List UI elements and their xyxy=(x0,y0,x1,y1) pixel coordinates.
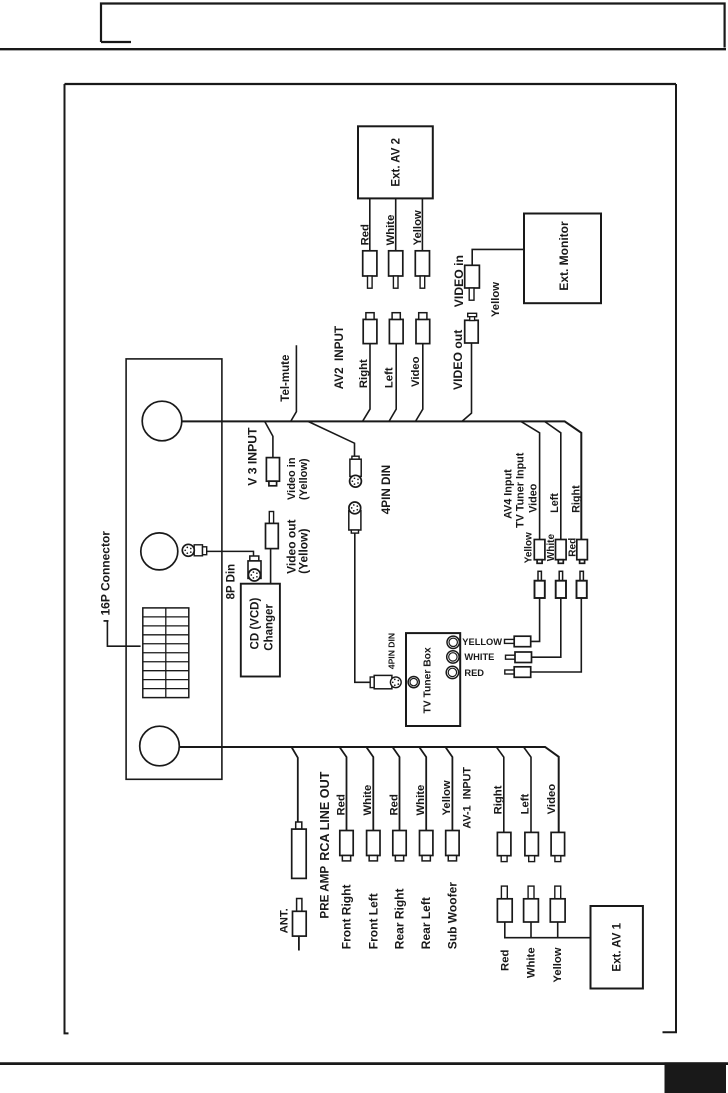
top rule xyxy=(0,48,726,50)
svg-text:Front Left: Front Left xyxy=(366,893,380,949)
label Front Right xyxy=(340,885,354,950)
svg-text:(Yellow): (Yellow) xyxy=(297,529,311,574)
svg-text:Right: Right xyxy=(358,359,370,388)
plug rca out 3 (red) xyxy=(393,831,406,861)
wire V3 input xyxy=(265,421,273,457)
label Left xyxy=(384,367,396,388)
tuner socket white xyxy=(447,651,459,663)
footer black box xyxy=(665,1062,727,1093)
svg-text:TV Tuner Input: TV Tuner Input xyxy=(515,452,527,528)
label ANT. xyxy=(278,908,290,933)
svg-text:Red: Red xyxy=(499,950,511,971)
label Red av4 xyxy=(567,538,578,557)
label Ext. AV 2 xyxy=(391,138,403,187)
wire rca out 1 xyxy=(340,747,347,831)
wire ext av2 red xyxy=(369,198,371,250)
svg-text:AV4 Input: AV4 Input xyxy=(503,469,515,519)
svg-text:Tel-mute: Tel-mute xyxy=(280,355,292,402)
label 4PIN DIN small xyxy=(387,633,397,669)
4pin din plug lower xyxy=(349,502,361,533)
svg-text:Video: Video xyxy=(410,356,422,387)
diagram border right xyxy=(663,84,677,1032)
label Tel-mute xyxy=(280,355,292,402)
plug rca out 1 (red) xyxy=(340,831,353,861)
label Right xyxy=(358,359,370,388)
16P connector grid xyxy=(143,608,189,698)
svg-text:Ext. Monitor: Ext. Monitor xyxy=(557,221,571,291)
label White xyxy=(385,215,397,246)
label YELLOW xyxy=(462,637,502,647)
plug 4pin din tuner (horizontal) xyxy=(370,675,401,688)
wire ext av2 white xyxy=(395,198,397,250)
plug tuner right (male) xyxy=(577,571,587,598)
tuner socket din xyxy=(408,677,419,688)
svg-text:VIDEO in: VIDEO in xyxy=(452,255,466,307)
wire video out xyxy=(462,343,472,421)
label V 3 INPUT xyxy=(246,427,260,486)
svg-text:8P Din: 8P Din xyxy=(225,564,237,600)
plug VIDEO out xyxy=(465,313,479,343)
wire rca out 4 xyxy=(419,747,426,831)
plug AV2 left (female) xyxy=(389,313,403,344)
plug AV4 left (female) xyxy=(556,540,567,564)
plug ext av2 white (male) xyxy=(389,251,403,288)
wires ext av1 to box xyxy=(505,922,591,938)
svg-text:AV-1 INPUT: AV-1 INPUT xyxy=(461,767,473,829)
svg-text:Red: Red xyxy=(388,794,400,815)
label Yellow videopair xyxy=(490,282,502,317)
label Red extav1 xyxy=(499,950,511,971)
label Sub Woofer xyxy=(445,882,459,949)
wire av1 left xyxy=(524,747,531,832)
svg-text:Left: Left xyxy=(384,367,396,388)
label Rear Right xyxy=(393,889,407,950)
unit connector circle middle xyxy=(141,533,178,570)
plug ext av1 white (male) xyxy=(524,886,539,922)
label White extav1 xyxy=(526,947,538,978)
label 16P Connector xyxy=(99,531,113,616)
svg-text:Video: Video xyxy=(528,483,540,513)
8p din plug at unit xyxy=(182,544,206,556)
label Left av4 xyxy=(549,493,561,513)
svg-text:ANT.: ANT. xyxy=(278,908,290,933)
plug AV-1 right (female) xyxy=(497,832,511,861)
svg-text:White: White xyxy=(362,785,374,816)
label Ext. AV 1 xyxy=(612,922,624,971)
plug tuner white (horizontal) xyxy=(506,652,532,663)
wire 8p din xyxy=(207,551,254,556)
wire AV2 video xyxy=(416,342,423,421)
svg-text:Right: Right xyxy=(570,485,582,513)
box CD (VCD) Changer xyxy=(241,584,280,677)
label Yellow extav1 xyxy=(552,947,564,982)
box Ext. Monitor xyxy=(524,214,601,304)
label TV Tuner Box xyxy=(422,647,433,713)
wire tuner yellow xyxy=(532,598,540,641)
svg-text:PRE AMP: PRE AMP xyxy=(319,866,332,919)
svg-text:RED: RED xyxy=(464,668,484,678)
svg-text:Sub Woofer: Sub Woofer xyxy=(445,882,459,949)
bottom rule xyxy=(0,1062,728,1065)
label AV4 Input xyxy=(503,469,515,519)
svg-text:YELLOW: YELLOW xyxy=(462,637,502,647)
label White rca4 xyxy=(415,785,427,816)
svg-text:TV Tuner Box: TV Tuner Box xyxy=(422,647,433,713)
wire pre amp xyxy=(292,747,298,822)
svg-text:CD (VCD): CD (VCD) xyxy=(249,598,261,650)
svg-text:Yellow: Yellow xyxy=(490,282,502,317)
svg-text:VIDEO out: VIDEO out xyxy=(451,330,465,390)
top trunk cable xyxy=(182,421,582,539)
wire AV4 video xyxy=(521,421,540,539)
plug AV2 right (female) xyxy=(363,313,377,344)
diagram border left xyxy=(65,84,69,1033)
plug VIDEO in xyxy=(465,265,480,300)
wire av1 right xyxy=(496,747,503,832)
label Red rca3 xyxy=(388,794,400,815)
plug ext av2 red (male) xyxy=(363,251,377,288)
wire video in to monitor xyxy=(472,249,524,265)
wire tuner red xyxy=(532,598,582,672)
label Video av1 xyxy=(546,784,558,815)
label 8P Din xyxy=(225,564,237,600)
label White av4 xyxy=(546,534,557,562)
svg-text:Ext. AV 1: Ext. AV 1 xyxy=(612,922,624,971)
label Right av4 xyxy=(570,485,582,513)
label Video xyxy=(410,356,422,387)
svg-text:White: White xyxy=(385,215,397,246)
label Yellow av4 xyxy=(524,532,535,563)
svg-text:WHITE: WHITE xyxy=(464,652,494,662)
plug PRE AMP xyxy=(292,822,307,878)
svg-text:White: White xyxy=(546,534,557,562)
plug tuner yellow (horizontal) xyxy=(505,636,531,647)
svg-text:(Yellow): (Yellow) xyxy=(298,458,310,500)
tuner socket red xyxy=(446,666,458,678)
plug ext av1 red (male) xyxy=(497,886,512,922)
wire 4pin din branch xyxy=(308,421,355,456)
svg-text:Front Right: Front Right xyxy=(340,885,354,950)
svg-text:Red: Red xyxy=(359,224,371,245)
plug tuner left (male) xyxy=(556,571,566,598)
svg-text:Ext. AV 2: Ext. AV 2 xyxy=(391,138,403,187)
svg-text:Yellow: Yellow xyxy=(412,210,424,245)
header box xyxy=(101,4,725,48)
label Video out (Yellow) xyxy=(284,519,310,573)
plug video out cd xyxy=(266,512,279,549)
plug AV4 right (female) xyxy=(577,540,588,564)
plug AV2 video (female) xyxy=(416,313,430,344)
plug rca out 4 (white) xyxy=(420,831,433,861)
label Ext. Monitor xyxy=(557,221,571,291)
label AV-1 INPUT xyxy=(461,767,473,829)
label VIDEO out xyxy=(451,330,465,390)
tel-mute leader xyxy=(291,345,297,421)
label White rca2 xyxy=(362,785,374,816)
plug tuner red (horizontal) xyxy=(505,667,531,678)
label Rear Left xyxy=(419,897,433,949)
wire AV4 left xyxy=(545,421,561,539)
box TV Tuner Box xyxy=(406,633,460,726)
wire video out cd xyxy=(270,549,272,584)
svg-text:Rear Right: Rear Right xyxy=(393,889,407,950)
wire tuner white xyxy=(532,598,561,657)
svg-text:Red: Red xyxy=(567,538,578,557)
diagram border top xyxy=(65,83,677,85)
label Yellow xyxy=(412,210,424,245)
plug V3 input xyxy=(266,458,279,486)
plug ext av2 yellow (male) xyxy=(415,251,429,288)
label RED xyxy=(464,668,484,678)
svg-text:Red: Red xyxy=(335,794,347,815)
svg-text:Yellow: Yellow xyxy=(524,532,535,563)
svg-text:Left: Left xyxy=(549,493,561,513)
label WHITE xyxy=(464,652,494,662)
plug rca out 2 (white) xyxy=(367,831,380,861)
wire AV2 right xyxy=(363,342,371,421)
plug tuner video (male) xyxy=(535,571,545,598)
label Video in (Yellow) xyxy=(286,457,310,500)
plug rca out 5 (yellow) xyxy=(446,831,459,861)
wire ant xyxy=(298,936,300,950)
svg-text:Video: Video xyxy=(546,784,558,815)
svg-text:4PIN DIN: 4PIN DIN xyxy=(387,633,397,669)
label CD (VCD) Changer xyxy=(249,598,275,651)
svg-text:Video in: Video in xyxy=(286,457,298,500)
wire rca out 3 xyxy=(393,747,400,831)
label 4PIN DIN large xyxy=(380,465,393,514)
svg-text:Rear Left: Rear Left xyxy=(419,897,433,949)
box Ext. AV 2 xyxy=(358,126,433,198)
label Red xyxy=(359,224,371,245)
plug ANT xyxy=(293,899,307,937)
plug AV-1 left (female) xyxy=(525,832,539,861)
label TV Tuner Input xyxy=(515,452,527,528)
svg-text:Changer: Changer xyxy=(264,604,276,651)
plug AV4 video (female) xyxy=(534,540,545,564)
label VIDEO in xyxy=(452,255,466,307)
8p din plug lower xyxy=(248,556,261,581)
svg-text:RCA LINE OUT: RCA LINE OUT xyxy=(318,771,332,860)
svg-text:Yellow: Yellow xyxy=(552,947,564,982)
unit connector circle top xyxy=(142,401,182,441)
unit connector circle bottom xyxy=(140,726,180,766)
label Video av4 xyxy=(528,483,540,513)
plug AV-1 video (female) xyxy=(551,832,565,861)
label RCA LINE OUT xyxy=(318,771,332,860)
4pin din plug upper xyxy=(350,456,362,487)
label PRE AMP xyxy=(319,866,332,919)
wire 4pin din to tuner xyxy=(355,533,370,682)
label AV2 INPUT xyxy=(333,325,346,389)
16P connector leader xyxy=(104,621,141,646)
wire ext av2 yellow xyxy=(421,198,423,250)
svg-text:V 3 INPUT: V 3 INPUT xyxy=(246,427,260,486)
svg-text:4PIN DIN: 4PIN DIN xyxy=(380,465,393,514)
head unit body xyxy=(126,359,222,779)
bottom trunk cable xyxy=(179,747,558,832)
svg-text:Yellow: Yellow xyxy=(441,780,453,815)
wire AV2 left xyxy=(389,342,396,421)
label Left av1 xyxy=(520,793,532,814)
svg-text:AV2 INPUT: AV2 INPUT xyxy=(333,325,346,389)
label Front Left xyxy=(366,893,380,949)
svg-text:16P Connector: 16P Connector xyxy=(99,531,113,616)
wire rca out 2 xyxy=(366,747,373,831)
wire rca out 5 xyxy=(445,747,452,831)
svg-text:Right: Right xyxy=(493,785,505,814)
label Yellow rca5 xyxy=(441,780,453,815)
svg-text:White: White xyxy=(526,947,538,978)
tuner socket yellow xyxy=(447,636,459,648)
box Ext. AV 1 xyxy=(591,906,643,989)
plug ext av1 yellow (male) xyxy=(550,886,565,922)
svg-text:Left: Left xyxy=(520,793,532,814)
label Right av1 xyxy=(493,785,505,814)
svg-text:White: White xyxy=(415,785,427,816)
label Red rca1 xyxy=(335,794,347,815)
